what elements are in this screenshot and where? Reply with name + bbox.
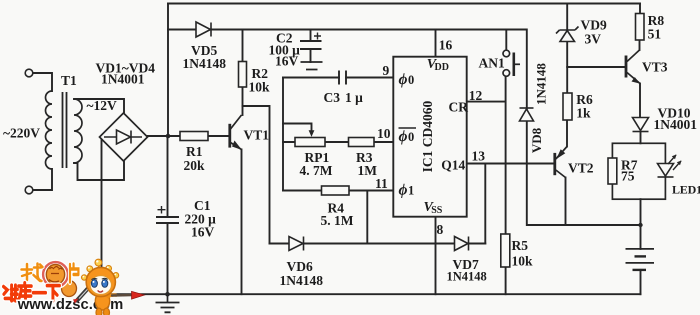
mascot antenna stalks <box>85 263 116 277</box>
svg-text:ϕ: ϕ <box>399 71 408 88</box>
battery GB <box>626 249 655 270</box>
transformer T1 secondary winding <box>74 99 82 163</box>
ground symbol C2 <box>301 62 323 70</box>
svg-text:75: 75 <box>621 169 635 184</box>
wire VD7 up to Q14 line <box>484 164 486 244</box>
wire R2 bottom to collector node <box>242 87 244 115</box>
wire C2 stub <box>310 30 312 63</box>
mascot eyes <box>91 280 97 288</box>
svg-text:10k: 10k <box>512 254 534 269</box>
potentiometer RP1 <box>295 138 325 147</box>
svg-text:SS: SS <box>431 205 443 216</box>
bridge inner diode <box>104 130 142 144</box>
watermark: red characters weikuyixia <box>4 283 60 301</box>
wire VD9 vertical <box>566 4 568 94</box>
op-amp substitute: IC1 CD4060 box <box>393 57 466 217</box>
resistor R5 <box>501 234 510 267</box>
wire R6 bottom to VT2 emitter <box>566 120 568 147</box>
resistor R2 <box>239 62 247 88</box>
wire R2 top to rail <box>242 30 244 62</box>
watermark: character pian <box>70 264 78 282</box>
resistor R3 <box>349 138 375 147</box>
svg-text:13: 13 <box>472 149 486 164</box>
svg-text:C3: C3 <box>324 90 341 105</box>
svg-text:1k: 1k <box>576 106 591 121</box>
wire C1 vertical <box>167 136 169 294</box>
svg-text:51: 51 <box>648 27 662 42</box>
transformer T1 primary winding <box>46 91 53 169</box>
wire AN1 bottom / R5 vertical <box>505 76 507 294</box>
wire second rail (VD5 row) <box>168 29 527 31</box>
wire pin 10 line <box>283 141 393 143</box>
wire secondary bottom to bridge <box>74 162 124 180</box>
svg-text:1N4001: 1N4001 <box>654 117 698 132</box>
wire secondary top to bridge <box>74 99 124 112</box>
svg-text:1: 1 <box>408 184 414 198</box>
wire VD9 R6 node to VT3 base <box>567 66 626 68</box>
wire VD10 to lamp box <box>640 132 642 143</box>
svg-text:1N4001: 1N4001 <box>101 72 145 87</box>
svg-text:0: 0 <box>408 73 414 87</box>
svg-text:DD: DD <box>435 62 449 73</box>
diode VD8 <box>520 108 534 121</box>
mascot right arm with needle <box>108 295 116 296</box>
mascot head <box>86 267 115 296</box>
wire RP1 wiper feed <box>283 124 312 131</box>
transformer T1 core <box>63 92 67 168</box>
wire pin 8 to ground rail <box>435 217 437 295</box>
svg-text:ϕ: ϕ <box>399 182 408 199</box>
bridge rectifier VD1~VD4 <box>100 113 148 161</box>
svg-text:R5: R5 <box>512 238 529 253</box>
mascot mouth <box>98 290 103 292</box>
svg-text:~12V: ~12V <box>87 98 118 113</box>
wire pin 13 Q14 line <box>467 163 554 165</box>
wire AN1 top to rail <box>505 30 507 51</box>
svg-text:10: 10 <box>377 126 391 141</box>
svg-text:CR: CR <box>449 100 469 115</box>
svg-text:8: 8 <box>437 222 444 237</box>
wire pin 11 line <box>283 190 393 192</box>
wire VT3 emitter to VD10 <box>639 84 641 118</box>
resistor R1 <box>180 132 208 141</box>
svg-text:16V: 16V <box>191 225 215 240</box>
svg-text:1N4148: 1N4148 <box>534 63 549 105</box>
diode VD10 <box>633 118 649 132</box>
wire transformer primary top <box>33 73 52 91</box>
watermark: magnifier with chip <box>43 262 76 296</box>
transistor VT3 <box>626 50 640 84</box>
node battery junction <box>638 223 642 227</box>
resistor R6 <box>563 93 572 120</box>
svg-text:11: 11 <box>375 176 388 191</box>
wire pin 9 line with C3 <box>283 77 393 79</box>
wire lamp box bottom to battery <box>640 199 642 249</box>
wire battery bottom to ground rail <box>640 270 642 294</box>
wire main DC rail after bridge <box>148 135 230 137</box>
resistor R8 <box>636 14 645 41</box>
transistor VT2 <box>555 147 567 178</box>
svg-text:1N4148: 1N4148 <box>183 56 227 71</box>
wire R4 drop to diode row <box>366 191 368 244</box>
pushbutton AN1 <box>503 50 510 57</box>
svg-text:LED1: LED1 <box>672 183 700 197</box>
transformer T1 primary terminal top <box>25 69 33 77</box>
svg-text:VT2: VT2 <box>568 161 594 176</box>
svg-text:5. 1M: 5. 1M <box>321 213 354 228</box>
svg-text:1 μ: 1 μ <box>345 90 363 105</box>
zener diode VD9 <box>556 27 579 42</box>
diode VD6 <box>289 237 304 251</box>
node ground junction <box>165 292 170 297</box>
wire left vertical <box>167 4 169 137</box>
wire VD8 vertical <box>527 30 641 226</box>
svg-text:AN1: AN1 <box>479 56 505 71</box>
transformer T1 primary terminal bottom <box>25 186 33 194</box>
svg-text:VD9: VD9 <box>581 18 607 33</box>
svg-text:T1: T1 <box>61 73 77 88</box>
wire VT2 collector down and right to battery <box>565 178 567 226</box>
capacitor C2 <box>300 41 322 49</box>
svg-text:Q14: Q14 <box>441 158 465 173</box>
wire bottom ground rail <box>102 293 641 295</box>
ground symbol main <box>156 303 180 313</box>
wire oscillator left vertical <box>282 78 284 191</box>
node main DC junction <box>166 134 171 139</box>
svg-text:VD6: VD6 <box>287 259 313 274</box>
svg-text:20k: 20k <box>184 158 206 173</box>
wire bridge minus drop <box>101 140 103 294</box>
wire pin 12 CR line <box>467 101 506 103</box>
watermark: character zhao <box>22 264 43 282</box>
svg-text:1N4148: 1N4148 <box>280 273 324 288</box>
wire top rail <box>168 3 640 5</box>
wire diode row VD6 VD7 <box>270 243 486 245</box>
wire VT1 emitter down to ground rail <box>241 150 243 295</box>
wire R8 bottom to VT3 collector <box>639 40 641 50</box>
svg-text:16V: 16V <box>275 54 299 69</box>
svg-text:16: 16 <box>439 38 453 53</box>
svg-text:1N4148: 1N4148 <box>447 270 487 284</box>
svg-text:~220V: ~220V <box>3 126 40 141</box>
svg-text:12: 12 <box>469 88 483 103</box>
transistor VT1 <box>230 115 242 150</box>
mascot body <box>95 292 109 310</box>
mascot pencil <box>77 285 91 301</box>
svg-text:VD8: VD8 <box>529 127 544 153</box>
capacitor C3 <box>339 71 346 85</box>
svg-text:VT3: VT3 <box>642 60 668 75</box>
wire transformer primary bottom <box>33 169 52 190</box>
svg-text:R1: R1 <box>186 144 203 159</box>
svg-text:3V: 3V <box>585 32 602 47</box>
LED1 <box>658 164 674 178</box>
diode VD5 <box>196 22 211 37</box>
mascot face <box>90 276 111 295</box>
wire R8 top <box>639 4 641 14</box>
mascot legs <box>96 308 102 315</box>
mascot red dart <box>132 291 145 299</box>
svg-text:ϕ: ϕ <box>399 128 408 145</box>
svg-text:9: 9 <box>383 63 390 78</box>
diode VD7 <box>455 237 469 251</box>
capacitor C1 <box>156 217 179 223</box>
svg-text:0: 0 <box>408 130 414 144</box>
svg-text:4. 7M: 4. 7M <box>300 163 333 178</box>
svg-text:10k: 10k <box>249 80 271 95</box>
lamp box <box>612 143 665 199</box>
resistor R7 <box>608 158 617 184</box>
mascot antenna balls <box>82 259 119 280</box>
wire collector branch right and down <box>243 106 270 244</box>
wire pin 16 <box>435 30 437 57</box>
resistor R4 <box>322 186 350 195</box>
svg-text:IC1 CD4060: IC1 CD4060 <box>420 100 435 172</box>
svg-text:VT1: VT1 <box>244 128 270 143</box>
